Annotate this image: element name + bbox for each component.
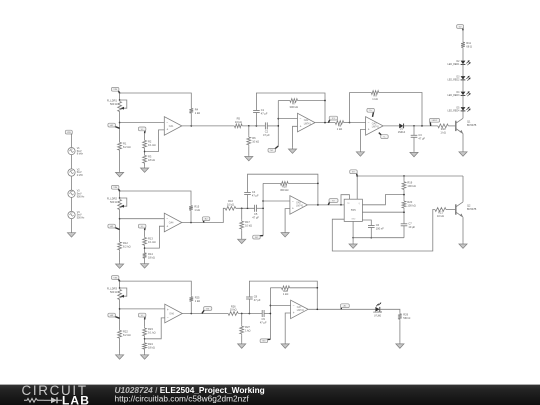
capacitor C4 47uF bbox=[244, 190, 259, 197]
resistor R29 560 bbox=[398, 312, 410, 320]
wire cap branch upper bbox=[413, 126, 415, 135]
wire R26 to cap bbox=[238, 313, 262, 315]
net flag row1 drive bbox=[429, 118, 439, 126]
voltage source V2 5mV 2kHz bbox=[68, 168, 84, 177]
svg-text:http://circuitlab.com/c58w6g2d: http://circuitlab.com/c58w6g2dm2nzf bbox=[115, 394, 250, 404]
svg-text:LAB: LAB bbox=[62, 393, 90, 405]
wire Q2 collector bbox=[462, 176, 464, 202]
wire 555 gnd pin bbox=[352, 221, 354, 237]
net flag V_IN source chain bbox=[65, 130, 72, 134]
node OA7 output bbox=[316, 308, 318, 310]
wire D3 to D4 bbox=[462, 80, 464, 92]
capacitor C6 100nF bbox=[368, 223, 384, 230]
node row2 s2 cap riser bbox=[247, 207, 249, 209]
wire row2 rail to rheostat bbox=[119, 191, 121, 198]
transistor Q1 BC547B bbox=[456, 118, 477, 133]
svg-text:GND: GND bbox=[351, 219, 356, 221]
LED D3 red bbox=[448, 76, 471, 82]
node reset join bbox=[340, 204, 342, 206]
capacitor C2 47uF series bbox=[263, 122, 270, 136]
svg-text:−: − bbox=[300, 117, 302, 121]
node rail join bbox=[324, 100, 326, 102]
ground OA3 plus bbox=[356, 151, 364, 157]
resistor R9 1k hysteresis bbox=[371, 91, 378, 101]
footer url line bbox=[115, 394, 250, 404]
node row1 s3 input bbox=[349, 122, 351, 124]
svg-text:LM741: LM741 bbox=[297, 310, 305, 312]
resistor R25 1k feedback bbox=[189, 295, 200, 303]
svg-text:5mV: 5mV bbox=[77, 150, 82, 153]
svg-text:5mV: 5mV bbox=[77, 171, 82, 174]
rheostat R_LDR1 500 Ohm bbox=[107, 99, 127, 112]
wire D2 to D3 bbox=[462, 64, 464, 76]
node OA4 output bbox=[190, 222, 192, 224]
wire R21 to Q2 base bbox=[446, 209, 456, 211]
svg-text:BC547B: BC547B bbox=[467, 124, 477, 127]
net flag row3 out bbox=[341, 304, 350, 310]
wire row1 input to op-amp bbox=[120, 122, 165, 124]
wire OA6 output bbox=[182, 313, 228, 315]
svg-text:LED_RED3: LED_RED3 bbox=[448, 95, 461, 97]
node hysteresis return bbox=[421, 125, 423, 127]
wire Q1 collector bbox=[462, 111, 464, 118]
svg-text:−: − bbox=[166, 217, 168, 221]
svg-text:ALARM: ALARM bbox=[373, 311, 382, 314]
svg-text:+: + bbox=[167, 308, 169, 312]
wire Q2 emitter to ground bbox=[462, 217, 464, 243]
svg-text:5mV: 5mV bbox=[77, 193, 82, 196]
wire flag to R13 bbox=[144, 230, 146, 236]
net flag row2 s2 bbox=[253, 235, 263, 239]
node row1 input bbox=[119, 122, 121, 124]
node row3 s2 divider bbox=[241, 313, 243, 315]
ground Q1 emitter bbox=[459, 151, 467, 157]
net flag row3 input bbox=[108, 313, 120, 318]
wire D6 to R29 bbox=[380, 309, 400, 312]
node OA5 output bbox=[317, 204, 319, 206]
wire R12 to ground bbox=[119, 251, 121, 263]
wire R7 to output riser bbox=[298, 100, 326, 102]
resistor R1 8.2k bbox=[118, 141, 131, 152]
svg-text:−: − bbox=[167, 315, 169, 319]
ground OA7 plus bbox=[281, 343, 289, 349]
wire R10 to Q1 base bbox=[448, 125, 456, 127]
wire row3 rail to rheostat bbox=[119, 281, 121, 288]
svg-text:+: + bbox=[368, 128, 370, 132]
wire RC chain top bbox=[403, 176, 405, 180]
wire R19 to R20 bbox=[403, 191, 405, 200]
wire R15 to output node bbox=[190, 212, 192, 223]
wire flag to R23 bbox=[144, 320, 146, 327]
wire R16 to cap bbox=[236, 207, 255, 209]
capacitor C7 10uF bbox=[401, 221, 416, 228]
ground source chain bbox=[67, 232, 75, 238]
wire feedback rail R18 bbox=[263, 182, 280, 184]
node row3 rail bbox=[119, 280, 121, 282]
voltage source V4 5mV 500Hz bbox=[68, 211, 85, 220]
wire R11 to D2 bbox=[462, 49, 464, 61]
node rail join row3 bbox=[316, 287, 318, 289]
op-amp OA4 bbox=[164, 213, 182, 232]
wire OA7 plus to ground bbox=[285, 313, 290, 343]
CircuitLab logo text bbox=[22, 383, 88, 398]
net flag row2 input bbox=[108, 224, 120, 229]
resistor R17 10k bbox=[240, 220, 252, 231]
ground row3 R27 bbox=[238, 343, 246, 349]
logo LAB text bbox=[62, 393, 90, 405]
wire s3 input to op-amp bbox=[350, 122, 366, 124]
resistor R16 10k bbox=[225, 199, 236, 210]
op-amp OA6 bbox=[165, 304, 183, 323]
LED D5 red bbox=[448, 107, 471, 113]
resistor R28 1k feedback bbox=[282, 286, 290, 296]
wire R3 to ground bbox=[144, 165, 146, 167]
node row1 rheostat top bbox=[119, 99, 121, 101]
wire gnd rail bbox=[353, 237, 404, 239]
resistor R24 18k bbox=[143, 342, 155, 351]
svg-text:2 kHz: 2 kHz bbox=[77, 174, 84, 177]
node row2 divider bbox=[144, 247, 146, 249]
svg-text:900 Hz: 900 Hz bbox=[77, 195, 85, 198]
wire cap riser lower bbox=[247, 195, 249, 209]
wire OA5 output bbox=[308, 204, 345, 206]
net flag row2 s2 out bbox=[328, 199, 338, 205]
wire vcc rail to Q2 collector bbox=[357, 175, 463, 177]
resistor R3 18k bbox=[143, 154, 155, 165]
wire cap riser upper + rail bbox=[256, 93, 325, 123]
op-amp OA7 bbox=[291, 300, 309, 319]
wire V4 to ground bbox=[71, 219, 73, 232]
wire minus to op-amp bbox=[270, 305, 290, 307]
wire R29 to ground bbox=[399, 321, 401, 343]
node rail RC top bbox=[403, 175, 405, 177]
ground row1 R6 bbox=[245, 155, 253, 161]
wire row1 rail to rheostat bbox=[119, 93, 121, 100]
svg-text:555: 555 bbox=[351, 208, 356, 212]
net flag OA3 V- bbox=[379, 133, 388, 139]
wire V2 to V3 bbox=[71, 176, 73, 190]
node OA6 output bbox=[190, 313, 192, 315]
wire R6 to ground bbox=[248, 146, 250, 155]
net flag row1 s2 out bbox=[328, 116, 337, 122]
wire divider to op-amp plus bbox=[145, 130, 165, 152]
node row1 s2 cap riser bbox=[256, 125, 258, 127]
capacitor C9 47uF series bbox=[260, 310, 267, 325]
resistor R12 8.2k bbox=[118, 241, 131, 252]
LED D6 ALARM yellow bbox=[373, 303, 382, 318]
wire row3 input to op-amp bbox=[120, 308, 165, 310]
node row2 s2 minus a bbox=[262, 200, 264, 202]
net flag row3 top bbox=[111, 276, 119, 281]
capacitor C1 47uF bbox=[253, 108, 268, 115]
svg-text:LED1: LED1 bbox=[432, 120, 438, 122]
wire R25 to output node bbox=[190, 303, 192, 314]
wire R2 to junction bbox=[144, 150, 146, 155]
svg-text:VIN: VIN bbox=[113, 187, 117, 189]
net flag row3 ref bbox=[138, 313, 146, 319]
wire rail to diode node bbox=[379, 93, 422, 126]
wire R1 to ground bbox=[119, 152, 121, 172]
resistor R21 10k bbox=[435, 208, 446, 218]
resistor R15 1k feedback bbox=[189, 204, 200, 212]
svg-text:VIN: VIN bbox=[113, 89, 117, 91]
wire OA1 output bbox=[182, 125, 235, 127]
wire R14 to ground bbox=[144, 260, 146, 263]
node row2 rheostat top bbox=[119, 197, 121, 199]
diode D1 1N914 bbox=[398, 124, 406, 135]
wire row1 feedback rail bbox=[120, 93, 192, 107]
wire OA2 output bbox=[315, 122, 335, 124]
node OA1 output bbox=[190, 125, 192, 127]
node R20 C7 bbox=[403, 211, 405, 213]
wire R28 to output riser bbox=[290, 287, 318, 289]
resistor R8 1k bbox=[335, 121, 343, 131]
wire minus to op-amp bbox=[263, 200, 290, 202]
resistor R2 9.1k bbox=[143, 139, 156, 150]
wire feedback rail R28 bbox=[270, 287, 281, 289]
wire C9 to minus node bbox=[264, 313, 270, 315]
wire R27 to ground bbox=[241, 335, 243, 342]
net flag 5V LED chain bbox=[457, 25, 464, 31]
node row1 s2 divider bbox=[248, 125, 250, 127]
capacitor C8 47uF bbox=[246, 295, 261, 302]
ground row2 R14 bbox=[141, 263, 149, 269]
wire R22 to ground bbox=[119, 340, 121, 354]
svg-text:LM741: LM741 bbox=[296, 206, 304, 208]
wire R5 to cap bbox=[242, 125, 265, 127]
svg-text:V-: V- bbox=[383, 137, 385, 139]
node row3 s2 cap riser bbox=[249, 313, 251, 315]
wire cap riser upper + rail bbox=[248, 174, 318, 205]
wire 555 trigger loop bbox=[332, 210, 435, 252]
wire OA3 output bbox=[383, 125, 399, 127]
node row1 divider bbox=[144, 151, 146, 153]
svg-text:500 Hz: 500 Hz bbox=[77, 217, 85, 220]
net flag row1 top bbox=[111, 87, 119, 92]
resistor R26 10k bbox=[228, 304, 238, 315]
node row3 divider bbox=[144, 338, 146, 340]
wire 555 dis pin bbox=[362, 211, 404, 213]
node 555 vcc rail bbox=[356, 175, 358, 177]
wire row2 input to op-amp bbox=[120, 218, 165, 220]
node row2 input bbox=[119, 218, 121, 220]
wire 555 thr pin bbox=[362, 220, 371, 226]
wire OA2 plus to ground bbox=[293, 126, 298, 148]
ground OA2 plus bbox=[288, 148, 296, 154]
net flag row3 s2 bbox=[260, 339, 270, 343]
node row3 input bbox=[119, 308, 121, 310]
ground C3 bbox=[410, 151, 418, 157]
wire OA4 output bbox=[182, 208, 225, 222]
voltage source V3 5mV 900Hz bbox=[68, 190, 85, 199]
net flag row2 top bbox=[111, 185, 119, 190]
node C6 gnd bbox=[370, 237, 372, 239]
ground row2 R17 bbox=[238, 238, 246, 244]
wire cap branch to ground bbox=[413, 137, 415, 151]
wire row1 input vertical bbox=[119, 112, 121, 142]
wire OA3 plus to ground bbox=[360, 130, 365, 151]
wire C5 to minus node bbox=[257, 207, 264, 209]
svg-text:+: + bbox=[300, 124, 302, 128]
svg-text:+: + bbox=[166, 128, 168, 132]
resistor R19 100k bbox=[402, 180, 416, 191]
wire C2 to minus node bbox=[267, 125, 278, 127]
svg-text:BC547B: BC547B bbox=[467, 208, 477, 211]
svg-text:LED_RED2: LED_RED2 bbox=[448, 80, 461, 82]
node row1 s2 minus a bbox=[277, 118, 279, 120]
op-amp OA2 bbox=[298, 113, 316, 132]
resistor R6 10k bbox=[247, 136, 259, 147]
node row1 rail bbox=[119, 92, 121, 94]
svg-text:VIN: VIN bbox=[113, 277, 117, 279]
wire divider drop bbox=[241, 208, 243, 220]
wire OA5 plus to ground bbox=[285, 209, 290, 232]
wire flag to R2 bbox=[144, 133, 146, 139]
wire cap riser upper + rail bbox=[249, 281, 317, 309]
wire divider drop bbox=[241, 314, 243, 325]
net flag 555 VCC bbox=[350, 170, 358, 176]
net flag row2 ref bbox=[138, 224, 146, 230]
wire R17 to ground bbox=[241, 230, 243, 238]
footer title line bbox=[115, 385, 265, 395]
wire R20 to C7 bbox=[403, 209, 405, 223]
wire row3 input vertical bbox=[119, 300, 121, 330]
wire minus node vertical bbox=[277, 101, 279, 147]
svg-text:1N914: 1N914 bbox=[398, 131, 406, 134]
wire C6 to ground rail bbox=[370, 228, 372, 238]
resistor R20 100k bbox=[402, 200, 416, 210]
wire C7 to gnd rail bbox=[403, 226, 405, 238]
wire row3 feedback rail bbox=[120, 281, 192, 295]
wire divider to op-amp minus bbox=[145, 318, 165, 339]
ground row1 R1 bbox=[116, 171, 124, 177]
wire divider to op-amp plus bbox=[145, 226, 165, 248]
wire R8 to stage3 bbox=[344, 122, 350, 124]
net flag row1 input bbox=[108, 123, 120, 128]
node row2 rail bbox=[119, 190, 121, 192]
resistor R18 300k feedback bbox=[280, 182, 288, 192]
resistor R7 300k feedback bbox=[290, 99, 298, 109]
node row3 rheostat top bbox=[119, 287, 121, 289]
node row2 s2 divider bbox=[241, 207, 243, 209]
net flag row3 mid bbox=[202, 307, 212, 314]
resistor R4 1k feedback bbox=[189, 107, 200, 115]
wire s3 hysteresis rail bbox=[350, 93, 372, 123]
svg-text:(YLW): (YLW) bbox=[374, 315, 381, 318]
wire 555 vcc pin bbox=[356, 176, 358, 199]
ground row1 R3 bbox=[141, 167, 149, 173]
node row1 s2 minus b bbox=[277, 125, 279, 127]
node row2 s2 minus b bbox=[262, 207, 264, 209]
wire V3 to V4 bbox=[71, 197, 73, 211]
svg-text:+: + bbox=[166, 224, 168, 228]
capacitor C3 47uF bbox=[411, 133, 426, 140]
resistor R22 8.2k bbox=[118, 329, 131, 340]
net flag row2 mid bbox=[202, 217, 210, 223]
node row3 s2 minus a bbox=[270, 305, 272, 307]
wire cap riser lower bbox=[248, 299, 250, 314]
IC U1 555 timer bbox=[344, 199, 362, 221]
wire diode to base resistor bbox=[404, 125, 438, 127]
node 555 gnd bbox=[352, 237, 354, 239]
rheostat R_LDR2 500 Ohm bbox=[107, 197, 127, 210]
net flag OA3 V+ bbox=[367, 108, 375, 117]
wire 555 reset loop bbox=[341, 195, 349, 205]
svg-text:8 kHz: 8 kHz bbox=[77, 153, 84, 156]
wire D4 to D5 bbox=[462, 95, 464, 107]
LED D2 red bbox=[448, 60, 471, 66]
wire 555 gnd to ground bbox=[352, 238, 354, 243]
wire cap riser lower bbox=[255, 113, 257, 126]
wire R23 to junction bbox=[144, 337, 146, 341]
resistor R27 1k bbox=[240, 325, 251, 336]
svg-text:5mV: 5mV bbox=[77, 214, 82, 217]
resistor R13 9.1k bbox=[143, 236, 156, 247]
node rail join row2 bbox=[317, 183, 319, 185]
ground OA5 plus bbox=[281, 231, 289, 237]
resistor R10 1k base bbox=[438, 124, 449, 134]
net flag row1 s2 bbox=[268, 146, 278, 152]
transistor Q2 BC547B bbox=[456, 202, 477, 217]
ground Q2 emitter bbox=[459, 243, 467, 249]
node R19 R20 bbox=[403, 194, 405, 196]
wire minus node vertical bbox=[269, 288, 271, 340]
svg-text:LM741: LM741 bbox=[304, 123, 312, 125]
ground row2 R12 bbox=[116, 263, 124, 269]
net flag row1 ref bbox=[138, 127, 146, 133]
svg-text:LM741: LM741 bbox=[372, 127, 380, 129]
svg-text:LED_RED1: LED_RED1 bbox=[448, 64, 461, 66]
wire row2 input vertical bbox=[119, 210, 121, 241]
footer bar bbox=[0, 385, 540, 405]
op-amp OA1 bbox=[164, 117, 182, 136]
wire OA7 output bbox=[308, 308, 375, 310]
LED D4 red bbox=[448, 91, 471, 97]
ground 555 bbox=[349, 243, 357, 249]
svg-text:VIN: VIN bbox=[67, 132, 71, 134]
svg-text:−: − bbox=[293, 304, 295, 308]
op-amp OA5 bbox=[290, 196, 308, 215]
op-amp OA3 bbox=[366, 117, 384, 136]
node OA2 output bbox=[324, 122, 326, 124]
svg-text:−: − bbox=[292, 199, 294, 203]
ground row3 R24 bbox=[141, 354, 149, 360]
svg-text:−: − bbox=[166, 120, 168, 124]
voltage source V1 5mV 8kHz bbox=[68, 147, 84, 156]
CircuitLab logo resistor-diode doodle bbox=[24, 397, 62, 403]
wire row2 feedback rail bbox=[120, 191, 191, 204]
rheostat R_LDR3 500 Ohm bbox=[107, 287, 127, 300]
wire minus node vertical bbox=[262, 183, 264, 235]
capacitor C5 47uF series bbox=[252, 205, 259, 220]
wire R18 to output riser bbox=[288, 182, 318, 184]
resistor R5 10k bbox=[234, 117, 242, 128]
ground R29 bbox=[396, 343, 404, 349]
wire source chain top bbox=[71, 134, 73, 148]
resistor R23 9.1k bbox=[143, 327, 156, 338]
wire 555 out pin bbox=[362, 195, 404, 205]
ground row3 R22 bbox=[116, 354, 124, 360]
wire feedback rail R7 bbox=[278, 100, 290, 102]
svg-text:+: + bbox=[292, 207, 294, 211]
svg-text:−: − bbox=[368, 120, 370, 124]
svg-text:+: + bbox=[293, 311, 295, 315]
svg-text:LED_RED4: LED_RED4 bbox=[448, 111, 461, 113]
wire V1 to V2 bbox=[71, 155, 73, 169]
node cap branch bbox=[413, 125, 415, 127]
wire R4 to output node bbox=[190, 115, 192, 126]
resistor R11 68 bbox=[461, 41, 472, 49]
